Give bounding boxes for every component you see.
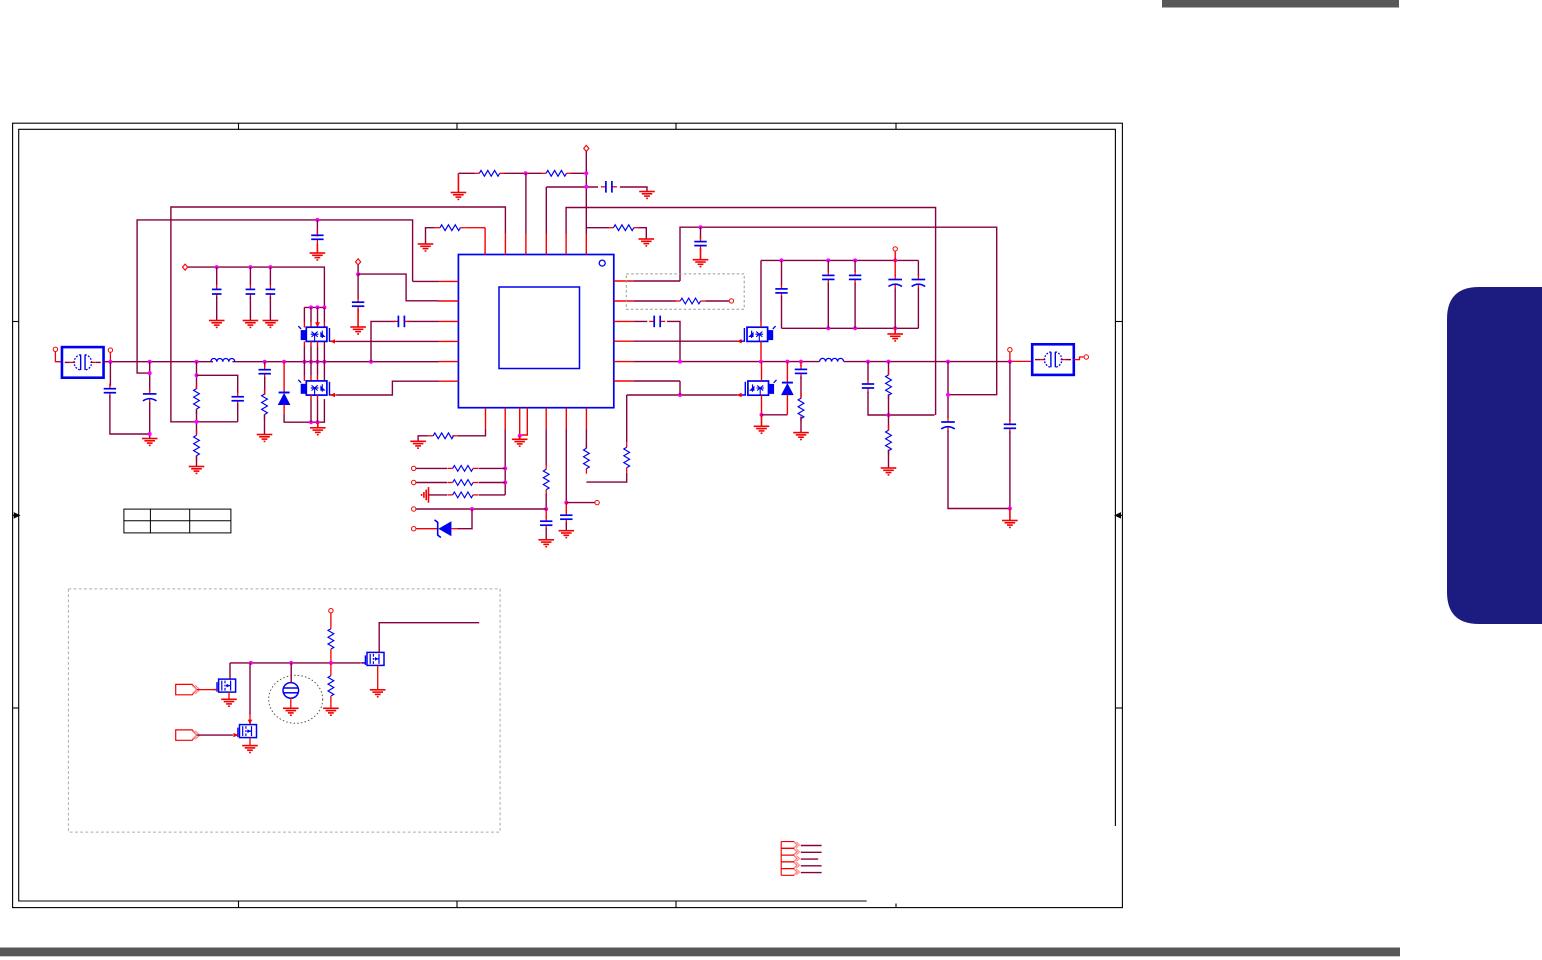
resistor R3 [435,225,465,231]
wire C21 column [947,362,949,419]
capacitor C17 (polarized) [888,275,902,290]
pin P6 [1008,348,1012,352]
wire gate Q6 [197,734,233,736]
junction [108,360,112,364]
resistor R5 [194,384,200,414]
resistor R16 [448,480,478,486]
wire gate Q3 from U1 [633,340,737,342]
capacitor C4 [104,384,116,398]
junction [322,305,326,309]
wire cluster verticals mid [304,341,317,346]
wire cap bank top bus [761,259,918,261]
wire main audio line right [633,361,1012,363]
wire resistor chain to U1 bottom [626,395,628,442]
capacitor C19 [795,364,807,378]
pin stubs U1 right [614,281,634,381]
junction [215,265,219,269]
capacitor C16 [849,270,861,284]
junction [866,360,870,364]
junction [518,434,522,438]
resistor R6 [194,430,200,460]
ground [754,415,770,433]
capacitor C18 (polarized) [912,275,926,290]
junction [148,371,152,375]
junction [1008,360,1012,364]
pin stubs U1 bottom [486,408,587,429]
wire gate Q1 to U1 [337,340,439,342]
wire bottom bus of mosfet cluster [284,399,324,422]
wire flag F3 stub [801,858,818,860]
ground [639,239,655,246]
pin P11 [595,500,599,504]
pin P9 [412,507,416,511]
capacitor C8 [212,284,222,299]
wire flag F4 stub [801,865,822,867]
input flag IN2 [176,730,200,740]
wire C5 column [149,362,151,392]
ground [887,328,903,341]
wire U1 left pin 281 entry [413,280,439,282]
capacitor C22 [1004,419,1016,433]
wire cap C15 column [827,260,829,271]
wire V1 bottom [290,698,292,708]
wire pin stub [109,353,111,361]
capacitor C6 [232,392,244,406]
junction [699,225,703,229]
wire C7/R7 column [264,362,266,367]
junction [503,481,507,485]
wire Q3 drain to cap bank [760,260,762,321]
ground [512,436,528,446]
junction [799,360,803,364]
junction [195,420,199,424]
wire Q7 source [377,665,379,689]
wire bus VB (second bus) [137,220,413,373]
junction [780,258,784,262]
junction [785,360,789,364]
junction [148,432,152,436]
pin P5 [893,247,897,251]
pin P8 [412,480,416,484]
junction [329,661,333,665]
wire flag F2 stub [801,851,822,853]
ground [142,439,158,446]
capacitor C10 [266,284,276,299]
junction [263,360,267,364]
flag array bus [780,842,782,876]
wire cap bank bottom bus [782,327,919,329]
wire R14 branch [458,429,486,436]
diode D1 [279,393,290,405]
wire cap C4 branch [109,362,111,386]
resistor R17 [448,492,478,498]
junction [248,265,252,269]
pin P2 [183,264,188,270]
wire R18 column [545,429,547,465]
wire resistor R4 branch [586,228,646,239]
wire sub-box bus [230,662,361,664]
junction [887,360,891,364]
wire Q7 drain up [379,623,479,653]
junction [887,413,891,417]
capacitor C13 [649,316,665,328]
resistor R1 [474,170,504,176]
pin P10 [412,527,416,531]
flag F1 [781,842,799,849]
junction [759,360,763,364]
capacitor C15 [822,270,834,284]
ground [243,321,259,328]
wire resistor R3 branch [426,228,435,244]
ground [283,708,299,715]
wire cap branch [546,187,647,192]
junction [309,420,313,424]
junction [946,393,950,397]
junction [282,360,286,364]
inductor L2 [820,358,844,361]
junction [369,360,373,364]
wire flag F5 stub [801,872,822,874]
transistor Q6 branch [249,663,251,715]
op-amp U1 (main IC) [458,255,613,408]
ground [1002,509,1018,528]
transistor Q4 [742,380,777,395]
pin J2-out [1084,355,1088,359]
wire Q5 source [228,692,230,699]
ground (signal) [422,487,429,503]
ground [221,699,237,706]
ground [793,433,809,440]
capacitor C3 [694,237,706,251]
wire diode D2 column [786,362,788,383]
wire dashed option box [626,274,744,309]
ground [538,540,554,547]
ground [323,708,339,715]
flag F5 [781,869,799,876]
wire R5 column [196,362,198,389]
wire cluster verticals upper [315,322,320,327]
wire cap bank column 2 [249,267,251,285]
junction [946,360,950,364]
transistor Q1 [298,326,333,341]
capacitor C21 (polarized) [941,417,955,432]
wire cap C14 column [781,260,783,285]
ground [410,441,426,448]
junction [148,360,152,364]
resistor R4 [608,225,638,231]
wire R20 column [330,663,332,671]
ground [881,468,897,475]
junction [309,360,313,364]
source V1 (sim source) [269,675,323,723]
wire Q6 source [249,738,251,746]
resistor R15 [448,466,478,472]
wire pin 566 net [565,429,567,503]
resistor R14 [428,433,457,439]
resistor R7 [262,389,268,419]
ground [370,690,386,697]
ground [310,422,326,435]
capacitor C14 [775,284,787,298]
wire net P1 vertical [585,151,587,234]
junction [678,393,682,397]
wire U1 right pin 301 with resistor [633,300,676,302]
junction [893,326,897,330]
transistor Q5 branch [229,663,231,679]
capacitor C23 [540,516,552,530]
junction [893,258,897,262]
transistor Q6 [235,725,257,738]
junction [316,420,320,424]
ground [209,321,225,328]
wire jack J2 right lead [1073,357,1084,360]
junction [503,466,507,470]
junction [853,258,857,262]
ground [242,746,258,753]
ground [693,248,709,267]
transistor Q5 [214,679,236,692]
junction [316,305,320,309]
wire cap C3 to ground [700,227,702,239]
ground [639,192,655,199]
capacitor C5 (polarized) [143,389,157,404]
wire cap bank column 3 [269,267,271,285]
wire cluster verticals lower [311,395,318,399]
pin P3 [356,259,361,265]
pin P7 [412,466,416,470]
resistor R19 [328,624,334,654]
junction [302,360,306,364]
junction [195,360,199,364]
transistor Q7 [362,652,384,665]
wire cap C18 column [917,260,919,276]
ground [451,173,467,199]
junction [826,326,830,330]
ground [350,309,366,334]
wire Q4 top to line [761,362,763,381]
wire C20 column [867,362,869,381]
wire jack left lead [55,352,62,362]
transistor Q2 [298,380,333,395]
wire U1 top pin x485 [484,228,486,234]
junction [760,413,764,417]
junction [289,661,293,665]
wire Q3 source to line [760,341,762,361]
junction [249,661,253,665]
wire R19 column [330,613,332,624]
capacitor C7 [259,365,271,379]
resistor R2 [541,170,571,176]
ground [257,435,273,442]
ground [263,321,279,328]
junction [356,272,360,276]
resistor R11 [798,393,804,421]
wire cap C12 to ground [357,274,359,299]
junction [678,360,682,364]
resistor R18 [543,464,549,494]
wire resistor row top [458,172,586,174]
resistor R8 [675,298,705,304]
input flag IN1 [176,684,200,694]
wire mosfet cluster top bus [304,306,324,308]
table (revision block) [124,509,231,533]
connector J1 [62,347,104,378]
junction [544,507,548,511]
junction [322,360,326,364]
dashed sub-circuit box [68,589,500,832]
wire flag F1 stub [801,845,822,847]
resistor R9 [624,442,630,472]
wire cap bank column 1 [216,267,218,285]
transistor Q3 [741,326,776,341]
junction [1008,507,1012,511]
wire diode D1 column [283,362,285,393]
capacitor C9 [246,284,256,299]
pin J1-ring [108,348,112,352]
wire main audio line left [104,361,439,363]
capacitor C11 [393,316,409,328]
wire pin rows net [504,429,506,495]
wire C19/R11 column [800,362,802,367]
wire V1 top [290,663,292,683]
resistor R12 [886,370,892,399]
junction [316,360,320,364]
wire U1 pin to y187 [545,187,547,234]
junction [524,171,528,175]
flag F2 [781,848,799,855]
wire cap C16 column [854,260,856,271]
ground [189,467,205,474]
wire U1 pin 526 up [525,173,527,233]
transistor Q7 branch [361,662,366,664]
wire C11 to U1 pin 321 [371,321,439,361]
pin P12 [329,609,333,613]
diode D3 (zener) [435,520,452,538]
junction [826,258,830,262]
pin P1 [584,145,589,151]
wire C13 to main line [633,321,680,361]
pin stubs U1 top [485,234,586,255]
capacitor C2 [311,230,323,244]
junction [268,265,272,269]
junction [470,507,474,511]
ground [418,244,434,251]
capacitor C24 [560,510,572,524]
junction [195,373,199,377]
wire cap C6 branch [197,375,238,393]
junction [309,305,313,309]
resistor R20 [328,671,334,701]
ground [310,244,326,260]
wire Q4 source [761,395,763,415]
resistor R13 [886,425,892,454]
wire cap C2 to ground [316,220,318,237]
resistor R10 [584,443,590,473]
wire U1 right pin 281 [633,280,680,282]
wire gate Q5 [197,689,217,691]
pin P4 [729,299,733,303]
junction [584,171,588,175]
pin stubs U1 left [439,281,459,381]
wire gnd pins 519/527 [520,429,528,435]
ground [559,531,575,538]
junction [564,501,568,505]
wire bus VA (left top bus) [171,207,506,422]
wire gate Q4 net [627,394,738,396]
capacitor C1 [601,181,617,193]
junction [584,185,588,189]
wire bus VD to right area [680,227,997,395]
inductor L1 [211,359,235,362]
wire R12/R13 column [888,362,890,375]
flag F4 [781,862,799,869]
connector J2 [1032,344,1074,375]
pin J1-tip [53,347,57,351]
wire gate Q2 to U1 [337,381,439,395]
junction [853,326,857,330]
capacitor C20 [862,379,874,393]
junction [315,218,319,222]
wire bus VC (right top bus) [566,208,936,416]
flag F3 [781,855,799,862]
diode D2 [782,383,793,395]
capacitor C12 [352,297,364,311]
